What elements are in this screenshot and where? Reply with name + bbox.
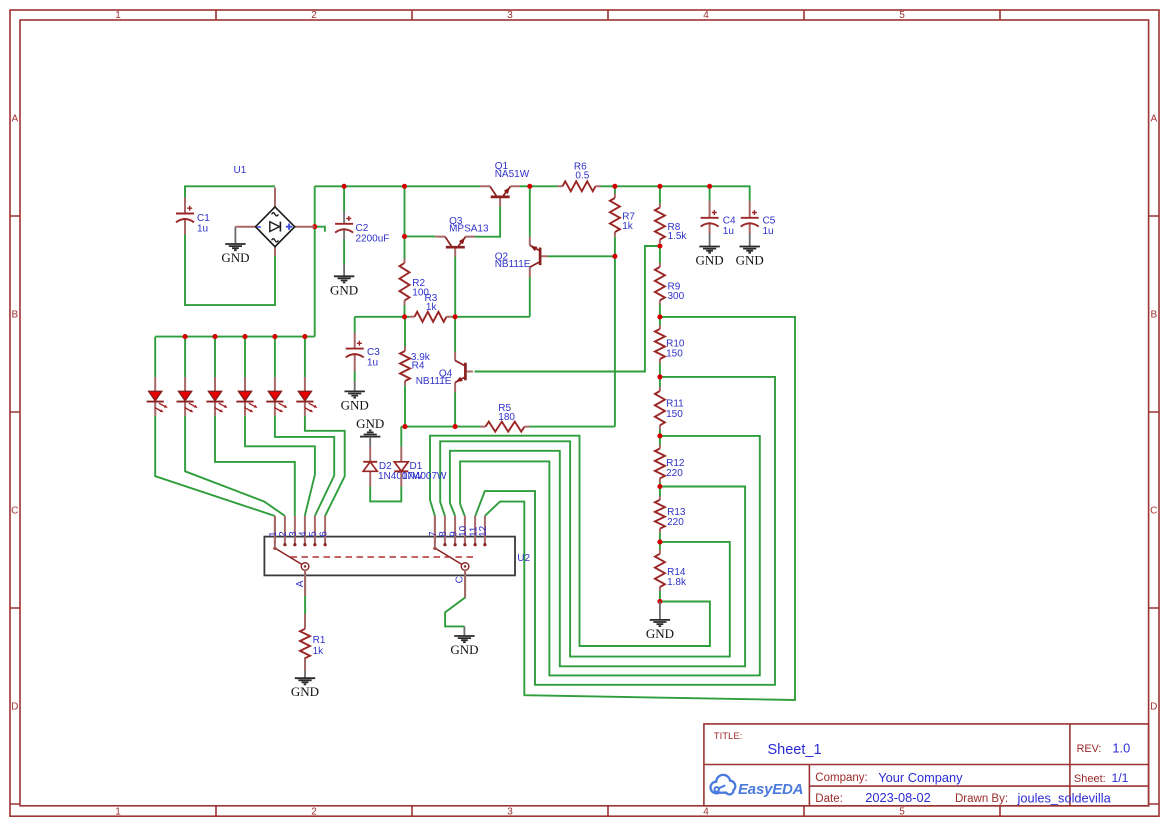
wire	[475, 206, 500, 236]
svg-text:6: 6	[318, 531, 329, 537]
svg-text:1.5k: 1.5k	[668, 231, 688, 242]
transistor Q2	[495, 237, 548, 278]
svg-text:1.8k: 1.8k	[667, 577, 687, 588]
ground (R1)	[291, 670, 319, 699]
LED 1	[147, 377, 168, 416]
svg-text:1k: 1k	[313, 646, 325, 657]
switch U2	[264, 516, 530, 598]
svg-text:NB111E: NB111E	[495, 259, 531, 270]
wire	[547, 255, 615, 257]
wire	[659, 482, 661, 496]
LED 5	[266, 377, 287, 416]
wire	[404, 305, 406, 317]
resistor R1	[300, 614, 326, 670]
wire	[709, 186, 711, 201]
resistor R3	[410, 293, 452, 322]
svg-text:1k: 1k	[426, 302, 438, 313]
svg-text:0.5: 0.5	[575, 171, 589, 182]
transistor Q3	[435, 216, 489, 257]
svg-text:1.0: 1.0	[1112, 741, 1130, 756]
svg-text:C: C	[11, 506, 18, 517]
svg-text:300: 300	[668, 291, 685, 302]
resistor R7	[610, 194, 636, 237]
capacitor C2	[335, 212, 389, 245]
svg-text:REV:: REV:	[1077, 743, 1102, 755]
wire	[155, 336, 315, 338]
wire	[185, 186, 275, 199]
ground (bridge)	[221, 227, 249, 265]
wire	[245, 416, 315, 516]
svg-text:2: 2	[311, 10, 317, 21]
svg-text:180: 180	[498, 412, 515, 423]
capacitor C4	[701, 201, 736, 238]
wire	[529, 277, 531, 317]
svg-text:4: 4	[703, 10, 709, 21]
capacitor C5	[741, 201, 776, 238]
wire	[454, 392, 456, 427]
wire	[440, 441, 730, 656]
svg-text:U2: U2	[517, 553, 530, 564]
svg-text:GND: GND	[646, 626, 674, 641]
wire LED columns top	[155, 337, 305, 377]
wire	[305, 416, 345, 516]
svg-text:1u: 1u	[197, 223, 208, 234]
svg-text:joules_soldevilla: joules_soldevilla	[1017, 791, 1112, 806]
wire	[185, 416, 285, 516]
svg-text:D: D	[11, 702, 18, 713]
svg-text:A: A	[295, 580, 306, 587]
svg-text:GND: GND	[291, 684, 319, 699]
wire	[659, 591, 661, 602]
wire	[370, 486, 401, 501]
wire	[275, 416, 334, 516]
svg-text:R4: R4	[412, 360, 425, 371]
svg-text:GND: GND	[450, 642, 478, 657]
svg-text:Your Company: Your Company	[878, 770, 963, 785]
resistor R8	[655, 204, 688, 245]
svg-text:5: 5	[899, 807, 905, 818]
wire	[475, 377, 775, 685]
svg-text:4: 4	[703, 807, 709, 818]
svg-text:D: D	[1150, 702, 1157, 713]
wire	[659, 364, 661, 388]
svg-text:GND: GND	[736, 253, 764, 268]
wire	[460, 436, 760, 676]
wire	[614, 237, 616, 427]
svg-text:1u: 1u	[367, 357, 378, 368]
svg-text:MPSA13: MPSA13	[449, 223, 489, 234]
capacitor C1	[176, 197, 210, 234]
svg-text:Sheet:: Sheet:	[1074, 773, 1106, 785]
LED 4	[236, 377, 257, 416]
svg-text:1u: 1u	[763, 226, 774, 237]
wire	[485, 317, 795, 700]
capacitor C3	[346, 333, 381, 372]
ground (C4)	[696, 234, 724, 268]
resistor R10	[655, 325, 685, 364]
svg-text:A: A	[11, 114, 18, 125]
svg-text:220: 220	[667, 517, 684, 528]
wire	[215, 416, 295, 516]
wire	[454, 317, 456, 352]
wire	[659, 186, 661, 203]
wire	[400, 427, 402, 447]
wire	[304, 658, 306, 671]
wire	[529, 186, 531, 236]
svg-text:C: C	[1150, 506, 1157, 517]
bridge rectifier U1	[234, 165, 315, 256]
svg-text:NA51W: NA51W	[495, 169, 530, 180]
wire	[445, 570, 465, 626]
LED 3	[206, 377, 227, 416]
wire	[601, 186, 750, 201]
wire	[404, 386, 406, 427]
svg-text:GND: GND	[696, 253, 724, 268]
wire	[343, 186, 345, 212]
wire	[659, 305, 661, 326]
wire	[405, 235, 436, 237]
svg-text:12: 12	[478, 525, 489, 537]
ground (C3)	[341, 381, 369, 412]
ground (C5)	[736, 234, 764, 268]
svg-text:3: 3	[507, 807, 513, 818]
svg-text:1: 1	[115, 807, 121, 818]
wire	[354, 317, 356, 382]
svg-text:C: C	[455, 576, 466, 583]
wire	[454, 257, 456, 317]
svg-text:Sheet_1: Sheet_1	[768, 742, 822, 758]
diode D2	[363, 447, 423, 487]
wire	[614, 186, 616, 193]
svg-text:3: 3	[507, 10, 513, 21]
wire	[659, 430, 661, 445]
wire	[451, 316, 529, 318]
wire	[659, 533, 661, 550]
wire	[530, 426, 615, 428]
svg-text:GND: GND	[341, 397, 369, 412]
svg-text:A: A	[1150, 114, 1157, 125]
wire	[404, 317, 406, 347]
transistor Q1	[480, 161, 530, 207]
TITLEBLOCK	[704, 724, 1149, 806]
svg-text:GND: GND	[221, 250, 249, 265]
svg-text:C4: C4	[723, 216, 736, 227]
svg-text:GND: GND	[330, 282, 358, 297]
wire	[185, 234, 275, 305]
wire	[315, 227, 325, 232]
resistor R6	[558, 161, 601, 191]
svg-text:Date:: Date:	[815, 793, 843, 805]
resistor R4	[400, 347, 431, 386]
svg-text:NB111E: NB111E	[416, 376, 452, 387]
wire	[404, 186, 406, 258]
svg-text:Company:: Company:	[815, 772, 867, 784]
svg-text:EasyEDA: EasyEDA	[738, 781, 803, 798]
svg-text:1/1: 1/1	[1112, 771, 1129, 785]
resistor R2	[400, 259, 430, 306]
svg-text:C3: C3	[367, 347, 380, 358]
svg-text:1: 1	[115, 10, 121, 21]
svg-text:B: B	[11, 310, 18, 321]
wire	[430, 436, 710, 646]
wire	[343, 240, 345, 266]
svg-text:1k: 1k	[622, 221, 634, 232]
svg-text:2200uF: 2200uF	[356, 233, 390, 244]
svg-text:150: 150	[666, 409, 683, 420]
svg-text:2: 2	[311, 807, 317, 818]
ground (C2)	[330, 265, 358, 298]
wire	[659, 244, 661, 264]
transistor Q4	[416, 352, 473, 393]
svg-text:1N4007W: 1N4007W	[402, 471, 447, 482]
svg-text:C2: C2	[356, 223, 369, 234]
resistor R12	[655, 445, 685, 483]
wire	[401, 426, 480, 428]
wire	[475, 246, 660, 372]
LED 2	[177, 377, 198, 416]
resistor R9	[655, 263, 685, 305]
svg-text:GND: GND	[356, 416, 384, 431]
svg-text:B: B	[1150, 310, 1157, 321]
svg-text:U1: U1	[234, 165, 247, 176]
ground (R-chain)	[646, 602, 674, 641]
resistor R5	[481, 403, 530, 432]
svg-text:Drawn By:: Drawn By:	[955, 793, 1008, 805]
svg-text:C1: C1	[197, 213, 210, 224]
svg-text:C5: C5	[763, 216, 776, 227]
ground (U2 pole C)	[450, 626, 478, 657]
wire	[314, 186, 316, 336]
svg-text:1u: 1u	[723, 226, 734, 237]
wire	[355, 316, 410, 318]
svg-text:2023-08-02: 2023-08-02	[865, 790, 930, 805]
resistor R14	[655, 550, 687, 592]
svg-text:TITLE:: TITLE:	[714, 731, 743, 742]
wire	[450, 451, 745, 667]
diode D1	[394, 447, 447, 487]
wire	[304, 570, 306, 614]
svg-text:5: 5	[899, 10, 905, 21]
svg-text:R1: R1	[313, 635, 326, 646]
svg-text:150: 150	[666, 348, 683, 359]
resistor R13	[655, 496, 686, 533]
wire	[155, 416, 275, 516]
ground (D2, flipped)	[356, 416, 384, 447]
resistor R11	[655, 387, 684, 430]
svg-text:220: 220	[666, 468, 683, 479]
wire	[315, 185, 558, 187]
LED 6	[296, 377, 317, 416]
junction dots	[183, 184, 713, 604]
